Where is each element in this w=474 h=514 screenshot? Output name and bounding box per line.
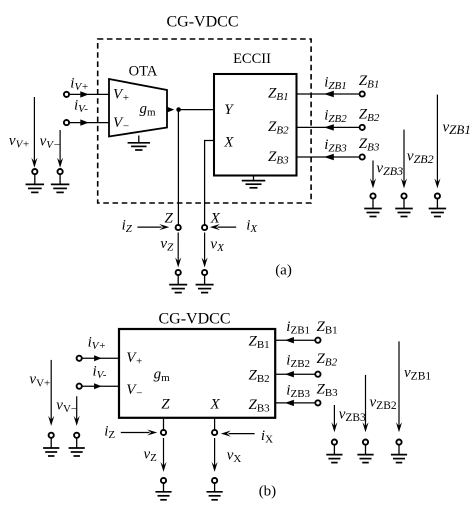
op-amp OTA U1 (transconductance block) <box>109 79 167 137</box>
pin label ZB1 (ECCII) <box>268 85 289 103</box>
label iV+ (b) <box>88 335 106 353</box>
voltage arrow vZB3 (b) <box>331 405 337 432</box>
pin label V+ (b) <box>126 350 143 368</box>
terminal ground node vX (a) <box>202 270 207 275</box>
wire V− input (a) <box>69 122 109 124</box>
svg-text:ZB2: ZB2 <box>268 119 289 137</box>
terminal ground node vZ (b) <box>161 478 166 483</box>
terminal V+ (a) <box>64 92 69 97</box>
svg-text:V−: V− <box>113 115 130 133</box>
svg-text:vZB1: vZB1 <box>443 119 471 137</box>
ground (below Z, a) <box>169 275 187 292</box>
svg-text:vX: vX <box>210 236 225 254</box>
svg-text:Y: Y <box>224 102 234 118</box>
ground (left 2, b) <box>69 438 85 456</box>
CG-VDCC block (b) <box>119 329 275 418</box>
label iZB2 (b) <box>286 353 310 371</box>
ground (below ZB1, b) <box>391 445 407 463</box>
svg-text:iZB2: iZB2 <box>324 108 347 126</box>
current arrow iZB3 (a) <box>324 154 334 160</box>
label OTA <box>129 63 158 79</box>
svg-text:(a): (a) <box>275 263 292 279</box>
label ZB1 terminal (a) <box>359 73 380 91</box>
voltage arrow vZ (b) <box>160 438 166 472</box>
value label gm (OTA) <box>140 101 157 119</box>
sub-figure label (b) <box>259 484 277 500</box>
voltage arrow vZB1 (a) <box>434 95 440 189</box>
svg-text:ZB2: ZB2 <box>317 351 338 369</box>
label ECCII <box>233 51 271 67</box>
svg-text:V+: V+ <box>126 350 143 368</box>
terminal ground node vX (b) <box>212 478 217 483</box>
label vZB1 (a) <box>443 119 471 137</box>
svg-text:ZB1: ZB1 <box>249 334 270 352</box>
svg-text:vV+: vV+ <box>29 372 50 390</box>
terminal ground node vV+ (b) <box>49 433 54 438</box>
current arrow on V+ wire (b) <box>94 355 102 361</box>
wire V− input (b) <box>82 385 119 387</box>
svg-text:gm: gm <box>140 101 157 119</box>
terminal X (b) <box>212 430 217 435</box>
label iV- (b) <box>93 363 107 381</box>
label iZ (a) <box>122 218 133 236</box>
wire OTA output to ECCII Y <box>179 109 214 111</box>
label vV- (a) <box>40 134 61 152</box>
svg-text:iZB1: iZB1 <box>286 319 310 337</box>
svg-text:gm: gm <box>154 367 171 385</box>
ground (left 2, a) <box>51 175 70 193</box>
label vZ (b) <box>144 446 158 464</box>
svg-text:X: X <box>210 210 221 226</box>
svg-text:ZB1: ZB1 <box>359 73 380 91</box>
terminal ground node vZB3 (b) <box>332 440 337 445</box>
current arrow iZ (a) <box>137 224 169 230</box>
label iX (a) <box>246 218 258 236</box>
svg-text:vZB2: vZB2 <box>407 148 434 166</box>
voltage arrow vX (b) <box>212 438 218 472</box>
label ZB2 terminal (b) <box>317 351 338 369</box>
voltage arrow vV- (a) <box>57 130 63 168</box>
svg-text:CG-VDCC: CG-VDCC <box>158 311 230 328</box>
wire V+ input (b) <box>82 357 119 359</box>
ECCII block U2 <box>214 74 297 176</box>
terminal ground node vV- (b) <box>74 433 79 438</box>
label iZ (b) <box>104 423 115 441</box>
wire ZB1 (b) <box>275 339 315 341</box>
label iZB1 (b) <box>286 319 310 337</box>
label vV+ (a) <box>9 133 30 151</box>
wire ZB3 (a) <box>297 156 360 158</box>
terminal V− (a) <box>64 120 69 125</box>
svg-text:vZB2: vZB2 <box>370 395 397 413</box>
ground (below ZB2, b) <box>357 445 373 463</box>
figure (a) title label CG-VDCC <box>166 13 238 30</box>
label vV- (b) <box>56 398 77 416</box>
current arrow iZB1 (a) <box>324 91 334 97</box>
pin label V− (OTA) <box>113 115 130 133</box>
wire ZB3 (b) <box>275 402 315 404</box>
current arrow iZB3 (b) <box>285 400 294 406</box>
label vZB2 (a) <box>407 148 434 166</box>
svg-text:ZB3: ZB3 <box>268 149 289 167</box>
wire junction to terminal Z (a) <box>177 110 179 225</box>
svg-text:iZ: iZ <box>104 423 115 441</box>
svg-text:iZB3: iZB3 <box>324 137 347 155</box>
svg-text:ZB3: ZB3 <box>359 136 380 154</box>
label ZB2 terminal (a) <box>359 106 380 124</box>
junction node (OTA output) <box>176 107 181 112</box>
terminal ground node vZ (a) <box>176 270 181 275</box>
terminal ZB2 (b) <box>315 372 320 377</box>
terminal ZB1 (a) <box>360 91 365 96</box>
label vZ (a) <box>160 236 174 254</box>
svg-text:OTA: OTA <box>129 63 158 79</box>
OTA output arrowhead <box>167 107 174 113</box>
label iV+ (a) <box>70 76 88 94</box>
ground (below ZB3, b) <box>326 445 342 463</box>
terminal V+ (b) <box>77 356 82 361</box>
current arrow iX (b) <box>221 431 255 437</box>
label vX (b) <box>227 448 242 466</box>
svg-text:V−: V− <box>126 382 143 400</box>
svg-text:iV+: iV+ <box>88 335 106 353</box>
wire Z pin (b) <box>163 418 165 430</box>
pin label ZB3 (b) <box>249 397 271 415</box>
label ZB3 terminal (a) <box>359 136 380 154</box>
svg-text:ZB2: ZB2 <box>359 106 380 124</box>
pin label X (ECCII) <box>223 134 234 150</box>
svg-text:ZB1: ZB1 <box>317 319 338 337</box>
voltage arrow vZB2 (b) <box>362 375 368 432</box>
ground (below Z, b) <box>155 483 171 499</box>
svg-text:X: X <box>223 134 234 150</box>
wire ZB2 (a) <box>297 126 360 128</box>
label vZB1 (b) <box>404 365 431 383</box>
voltage arrow vX (a) <box>202 233 208 268</box>
terminal ground node vZB2 (a) <box>401 193 406 198</box>
pin label ZB3 (ECCII) <box>268 149 289 167</box>
svg-text:vV−: vV− <box>56 398 77 416</box>
wire ECCII X to terminal X (a) <box>205 141 214 225</box>
current arrow on V− wire <box>80 119 89 125</box>
svg-text:iV-: iV- <box>74 97 88 115</box>
terminal ZB1 (b) <box>315 338 320 343</box>
terminal Z (b) <box>161 430 166 435</box>
label X node (a) <box>210 210 221 226</box>
svg-text:iZ: iZ <box>122 218 133 236</box>
voltage arrow vV- (b) <box>74 396 80 426</box>
svg-text:vZ: vZ <box>144 446 158 464</box>
label vV+ (b) <box>29 372 50 390</box>
svg-text:V+: V+ <box>113 87 130 105</box>
svg-text:vX: vX <box>227 448 242 466</box>
label ZB1 terminal (b) <box>317 319 338 337</box>
svg-text:ZB3: ZB3 <box>249 397 271 415</box>
label iX (b) <box>261 428 273 446</box>
svg-text:vZB3: vZB3 <box>376 160 403 178</box>
svg-text:vV+: vV+ <box>9 133 30 151</box>
svg-text:Z: Z <box>165 210 174 226</box>
current arrow iZ (b) <box>121 429 157 435</box>
current arrow iZB2 (a) <box>324 124 334 130</box>
terminal ZB3 (a) <box>360 154 365 159</box>
svg-text:vV−: vV− <box>40 134 61 152</box>
svg-text:ZB3: ZB3 <box>317 381 339 399</box>
svg-text:(b): (b) <box>259 484 277 500</box>
label iV- (a) <box>74 97 88 115</box>
svg-text:ZB2: ZB2 <box>249 368 270 386</box>
pin label Z (b) <box>161 397 170 413</box>
svg-text:CG-VDCC: CG-VDCC <box>166 13 238 30</box>
wire X pin (b) <box>214 418 216 430</box>
terminal ground node vZB2 (b) <box>363 440 368 445</box>
label iZB3 (b) <box>286 382 310 400</box>
terminal ground node vZB1 (b) <box>396 440 401 445</box>
svg-text:vZ: vZ <box>160 236 174 254</box>
pin label ZB2 (b) <box>249 368 270 386</box>
voltage arrow vV+ (a) <box>31 97 37 168</box>
terminal X (a) <box>202 225 207 230</box>
current arrow iZB2 (b) <box>285 371 294 377</box>
label ZB3 terminal (b) <box>317 381 339 399</box>
label vZB3 (b) <box>339 407 366 425</box>
svg-text:X: X <box>210 397 221 413</box>
terminal ground node vZB3 (a) <box>370 193 375 198</box>
wire V+ input (a) <box>69 93 109 95</box>
enclosure dashed box CG-VDCC (a) <box>98 39 311 203</box>
svg-text:iZB1: iZB1 <box>324 74 347 92</box>
svg-text:iV+: iV+ <box>70 76 88 94</box>
ground (left 1, b) <box>43 438 59 456</box>
ground (below ZB2, a) <box>395 199 413 217</box>
pin label ZB1 (b) <box>249 334 270 352</box>
current arrow on V+ wire <box>80 91 89 97</box>
ground (below ZB3, a) <box>364 199 382 217</box>
pin label Y (ECCII) <box>224 102 234 118</box>
voltage arrow vZ (a) <box>175 233 181 268</box>
svg-text:iX: iX <box>246 218 258 236</box>
terminal ZB2 (a) <box>360 125 365 130</box>
ground (below X, b) <box>207 483 223 499</box>
label Z node (a) <box>165 210 174 226</box>
figure (b) title label CG-VDCC <box>158 311 230 328</box>
svg-text:vZB3: vZB3 <box>339 407 366 425</box>
svg-text:iV-: iV- <box>93 363 107 381</box>
current arrow iX (a) <box>210 224 236 230</box>
value label gm (b) <box>154 367 171 385</box>
terminal V− (b) <box>77 384 82 389</box>
voltage arrow vZB1 (b) <box>396 341 402 432</box>
label vZB2 (b) <box>370 395 397 413</box>
label vZB3 (a) <box>376 160 403 178</box>
svg-text:ECCII: ECCII <box>233 51 271 67</box>
label vX (a) <box>210 236 225 254</box>
sub-figure label (a) <box>275 263 292 279</box>
terminal ground node vV+ (a) <box>32 169 37 174</box>
label iZB3 (a) <box>324 137 347 155</box>
label iZB1 (a) <box>324 74 347 92</box>
svg-text:ZB1: ZB1 <box>268 85 289 103</box>
pin label V+ (OTA) <box>113 87 130 105</box>
terminal ground node vZB1 (a) <box>435 193 440 198</box>
terminal ground node vV- (a) <box>58 169 63 174</box>
wire ZB1 (a) <box>297 93 360 95</box>
svg-text:iZB2: iZB2 <box>286 353 310 371</box>
pin label V− (b) <box>126 382 143 400</box>
current arrow iZB1 (b) <box>285 337 294 343</box>
svg-text:iX: iX <box>261 428 273 446</box>
terminal Z (a) <box>176 225 181 230</box>
pin label X (b) <box>210 397 221 413</box>
pin label ZB2 (ECCII) <box>268 119 289 137</box>
current arrow on V− wire (b) <box>94 383 102 389</box>
label iZB2 (a) <box>324 108 347 126</box>
svg-text:vZB1: vZB1 <box>404 365 431 383</box>
wire ZB2 (b) <box>275 373 315 375</box>
svg-text:Z: Z <box>161 397 170 413</box>
svg-text:iZB3: iZB3 <box>286 382 310 400</box>
voltage arrow vZB3 (a) <box>370 161 376 189</box>
ground (OTA) <box>128 136 150 151</box>
ground (left 1, a) <box>26 175 45 193</box>
ground (ECCII) <box>242 176 266 188</box>
ground (below X, a) <box>196 275 214 292</box>
voltage arrow vV+ (b) <box>48 360 54 426</box>
terminal ZB3 (b) <box>315 400 320 405</box>
voltage arrow vZB2 (a) <box>401 130 407 189</box>
ground (below ZB1, a) <box>429 199 447 217</box>
